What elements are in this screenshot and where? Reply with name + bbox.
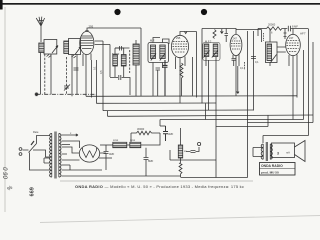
svg-text:295: 295 [176, 36, 181, 40]
svg-text:0,5: 0,5 [99, 70, 103, 74]
svg-text:prod. MU 50: prod. MU 50 [261, 171, 279, 175]
svg-text:295: 295 [89, 25, 94, 29]
svg-text:0,1: 0,1 [255, 60, 259, 64]
svg-text:4MF: 4MF [109, 152, 115, 156]
svg-text:AF7: AF7 [300, 32, 306, 36]
svg-text:4MF: 4MF [168, 132, 174, 136]
svg-text:669: 669 [30, 187, 36, 196]
svg-text:0,1: 0,1 [93, 66, 97, 70]
svg-text:Rete: Rete [33, 130, 39, 134]
svg-text:30000: 30000 [137, 127, 145, 131]
svg-text:8 MF: 8 MF [292, 25, 298, 29]
svg-text:3: 3 [277, 152, 279, 156]
svg-text:247: 247 [289, 36, 294, 40]
svg-text:50000: 50000 [112, 52, 120, 56]
svg-text:xxxx: xxxx [113, 139, 119, 142]
svg-text:247: 247 [233, 37, 238, 41]
svg-text:8MF: 8MF [148, 159, 154, 163]
svg-text:ONDA RADIO: ONDA RADIO [261, 164, 283, 168]
svg-text:0,1: 0,1 [240, 66, 244, 70]
svg-text:mA: mA [286, 151, 290, 155]
svg-text:20000: 20000 [268, 23, 276, 27]
svg-text:ONDA RADIO — Modello « M. U.: ONDA RADIO — Modello « M. U. 50 » - Prod… [75, 184, 244, 189]
svg-text:M.F.: M.F. [150, 39, 155, 43]
svg-text:06 0: 06 0 [4, 167, 10, 179]
svg-text:M.F.2: M.F.2 [205, 40, 212, 44]
svg-text:xxxx: xxxx [130, 139, 136, 142]
